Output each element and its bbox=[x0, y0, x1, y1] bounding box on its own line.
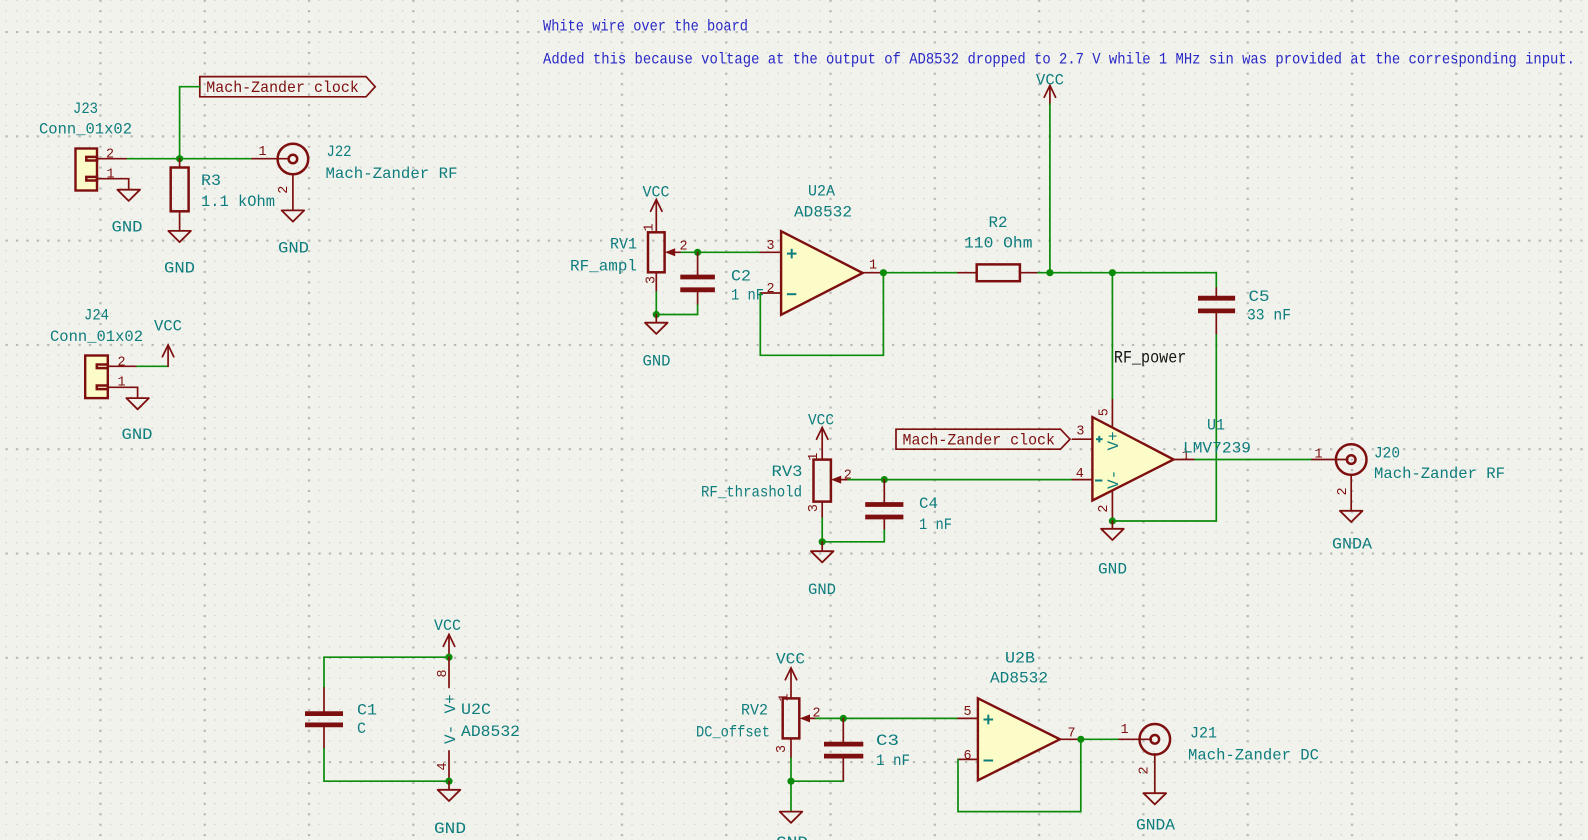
svg-text:Added this because voltage at: Added this because voltage at the output… bbox=[543, 51, 1575, 69]
J22 reference and value bbox=[326, 143, 458, 183]
svg-text:1.1 kOhm: 1.1 kOhm bbox=[201, 193, 275, 211]
power symbol VCC (top) bbox=[1036, 72, 1064, 105]
potentiometer RV3 bbox=[814, 460, 849, 518]
svg-text:110 Ohm: 110 Ohm bbox=[964, 235, 1033, 253]
wire U1 output to J20 bbox=[1195, 459, 1312, 461]
svg-text:1 nF: 1 nF bbox=[876, 752, 910, 770]
svg-text:C: C bbox=[357, 720, 366, 738]
U2C V+ / V- port names bbox=[442, 694, 460, 744]
J22 pin numbers bbox=[259, 145, 293, 194]
svg-text:3: 3 bbox=[645, 276, 660, 284]
J23 reference and value bbox=[39, 100, 132, 139]
svg-text:RF_ampl: RF_ampl bbox=[570, 258, 637, 276]
power symbol VCC at J24 bbox=[154, 318, 182, 367]
wire C1 bottom to U2C pin4 bbox=[324, 749, 449, 782]
svg-text:RV3: RV3 bbox=[772, 463, 803, 481]
junction at RV2 ground node bbox=[787, 778, 794, 785]
svg-text:DC_offset: DC_offset bbox=[696, 724, 770, 742]
coax connector J20 bbox=[1312, 444, 1366, 510]
wire U2B output to J21 bbox=[1081, 738, 1119, 740]
svg-text:C4: C4 bbox=[919, 495, 938, 513]
capacitor C1 bbox=[305, 688, 343, 749]
svg-text:GND: GND bbox=[434, 820, 466, 838]
power symbol VCC at RV3 bbox=[808, 412, 834, 460]
svg-text:GND: GND bbox=[776, 834, 808, 840]
svg-text:GNDA: GNDA bbox=[1332, 536, 1372, 554]
svg-text:1: 1 bbox=[1315, 448, 1323, 463]
op-amp U2A bbox=[760, 231, 883, 315]
coax connector J22 bbox=[252, 144, 308, 211]
power symbol VCC at RV2 bbox=[776, 651, 805, 699]
wire R2 to C5 top corner bbox=[1038, 273, 1216, 288]
svg-text:J22: J22 bbox=[327, 143, 352, 161]
svg-text:RV2: RV2 bbox=[741, 702, 768, 720]
svg-text:VCC: VCC bbox=[434, 617, 461, 635]
svg-text:3: 3 bbox=[767, 239, 775, 254]
junction at RV3 ground node bbox=[819, 538, 826, 545]
svg-text:6: 6 bbox=[964, 749, 972, 764]
wire RV1 pin3 / C2 bottom to GND node bbox=[656, 292, 697, 315]
RV3 pin numbers bbox=[807, 453, 852, 513]
svg-text:3: 3 bbox=[807, 504, 822, 512]
ground GNDA at J21 bbox=[1136, 793, 1175, 834]
svg-text:7: 7 bbox=[1068, 727, 1076, 742]
svg-text:Conn_01x02: Conn_01x02 bbox=[50, 328, 143, 346]
wire J24 pin2 to VCC bbox=[137, 365, 168, 367]
R3 labels bbox=[201, 172, 275, 211]
ground GNDA at J20 bbox=[1332, 511, 1372, 554]
svg-text:AD8532: AD8532 bbox=[990, 670, 1048, 688]
svg-text:GND: GND bbox=[164, 260, 195, 278]
svg-text:1 nF: 1 nF bbox=[731, 287, 764, 305]
svg-text:J24: J24 bbox=[84, 307, 109, 325]
ground at J22 pin 2 bbox=[278, 210, 309, 257]
svg-text:U2B: U2B bbox=[1005, 650, 1035, 668]
svg-text:1: 1 bbox=[777, 693, 792, 701]
C5 labels bbox=[1247, 288, 1291, 325]
svg-text:Mach-Zander DC: Mach-Zander DC bbox=[1188, 747, 1319, 765]
svg-text:RF_thrashold: RF_thrashold bbox=[701, 484, 802, 502]
wire J23 pin2 to J22 pin1 bbox=[126, 158, 252, 160]
svg-text:Conn_01x02: Conn_01x02 bbox=[39, 121, 132, 139]
capacitor C2 bbox=[680, 252, 715, 305]
U1 V+ / V- port names bbox=[1105, 431, 1123, 489]
svg-text:1: 1 bbox=[1121, 723, 1129, 738]
RV2 pin numbers bbox=[775, 693, 821, 753]
svg-text:V+: V+ bbox=[1105, 431, 1123, 450]
U1 reference and value bbox=[1183, 417, 1251, 458]
potentiometer RV2 bbox=[783, 698, 816, 758]
svg-text:2: 2 bbox=[1336, 487, 1351, 495]
svg-text:Mach-Zander clock: Mach-Zander clock bbox=[903, 431, 1056, 449]
RV1 pin numbers bbox=[643, 223, 688, 284]
J24 pin numbers bbox=[118, 356, 126, 391]
junction at RV1 ground node bbox=[653, 311, 660, 318]
C3 labels bbox=[876, 732, 910, 770]
wire label to J23/J22 net bbox=[180, 87, 200, 159]
svg-text:J21: J21 bbox=[1190, 725, 1217, 743]
svg-text:Mach-Zander RF: Mach-Zander RF bbox=[1374, 465, 1505, 483]
comparator U1 bbox=[1072, 400, 1195, 521]
junction at VCC drop bbox=[1046, 269, 1053, 276]
svg-text:2: 2 bbox=[844, 469, 852, 484]
junction at U2A output bbox=[880, 269, 887, 276]
svg-text:C2: C2 bbox=[731, 268, 751, 286]
svg-text:V-: V- bbox=[442, 725, 460, 744]
svg-text:2: 2 bbox=[1138, 766, 1153, 774]
svg-text:1: 1 bbox=[643, 223, 658, 231]
svg-text:Mach-Zander RF: Mach-Zander RF bbox=[326, 165, 458, 183]
resistor R3 bbox=[171, 159, 189, 231]
svg-text:White wire over the board: White wire over the board bbox=[543, 18, 748, 36]
wire RV3 pin3 / C4 bottom to GND node bbox=[822, 518, 884, 542]
C4 labels bbox=[919, 495, 952, 534]
svg-text:VCC: VCC bbox=[643, 184, 670, 202]
junction at R3 top node bbox=[176, 155, 183, 162]
svg-text:2: 2 bbox=[277, 186, 292, 194]
svg-text:U2A: U2A bbox=[808, 183, 835, 201]
ground at J24 pin 1 bbox=[122, 398, 153, 444]
capacitor C5 bbox=[1198, 288, 1235, 335]
global label Mach-Zander clock (top) bbox=[200, 77, 375, 97]
svg-text:4: 4 bbox=[1076, 467, 1084, 482]
capacitor C3 bbox=[824, 718, 863, 781]
op-amp power unit U2C bbox=[448, 657, 450, 781]
svg-text:AD8532: AD8532 bbox=[794, 204, 852, 222]
connector J23 bbox=[76, 149, 129, 191]
ground at RV3 bbox=[808, 542, 836, 599]
svg-text:GND: GND bbox=[278, 240, 309, 258]
svg-text:2: 2 bbox=[767, 282, 775, 297]
wire VCC down to R2 output node bbox=[1049, 104, 1051, 273]
svg-text:R2: R2 bbox=[989, 214, 1008, 232]
J21 reference and value bbox=[1188, 725, 1319, 765]
svg-text:1: 1 bbox=[118, 376, 126, 391]
U2B pin numbers bbox=[964, 705, 1076, 764]
R2 labels bbox=[964, 214, 1033, 253]
RV3 reference and value bbox=[701, 463, 803, 502]
J20 reference and value bbox=[1374, 445, 1505, 484]
U2A pin numbers bbox=[767, 239, 878, 297]
svg-text:RF_power: RF_power bbox=[1114, 348, 1186, 368]
junction at U2C pin4 bbox=[445, 778, 452, 785]
svg-text:GND: GND bbox=[1098, 561, 1127, 579]
svg-text:J20: J20 bbox=[1374, 445, 1400, 463]
svg-text:2: 2 bbox=[106, 148, 114, 163]
resistor R2 bbox=[958, 264, 1038, 281]
svg-text:1 nF: 1 nF bbox=[919, 516, 952, 534]
coax connector J21 bbox=[1119, 724, 1170, 793]
svg-text:VCC: VCC bbox=[808, 412, 834, 430]
wire U2A output to R2 bbox=[883, 272, 958, 274]
svg-text:R3: R3 bbox=[201, 172, 221, 190]
wire junction down to GND bbox=[790, 781, 792, 811]
svg-text:1: 1 bbox=[869, 259, 877, 274]
svg-text:U2C: U2C bbox=[461, 701, 491, 719]
U2B feedback wire output to pin6 bbox=[958, 739, 1081, 811]
J21 pin numbers bbox=[1121, 723, 1153, 775]
RV2 reference and value bbox=[696, 702, 770, 742]
svg-text:3: 3 bbox=[1076, 425, 1084, 440]
potentiometer RV1 bbox=[648, 232, 681, 292]
svg-text:LMV7239: LMV7239 bbox=[1183, 440, 1251, 458]
U2A reference and value bbox=[794, 183, 852, 222]
U2C pin numbers bbox=[436, 669, 451, 770]
J23 pin numbers bbox=[106, 148, 115, 183]
svg-text:GND: GND bbox=[112, 219, 143, 237]
U2A feedback wire output to pin2 bbox=[760, 273, 883, 356]
svg-text:C3: C3 bbox=[876, 732, 899, 750]
svg-text:1: 1 bbox=[107, 168, 115, 183]
ground at R3 bottom bbox=[164, 231, 195, 278]
svg-text:GNDA: GNDA bbox=[1136, 817, 1175, 835]
svg-text:2: 2 bbox=[118, 356, 126, 371]
J20 pin numbers bbox=[1315, 448, 1352, 496]
ground at U2C bbox=[434, 781, 466, 838]
wire node down to U1 pin 5 bbox=[1111, 273, 1113, 400]
RV1 reference and value bbox=[570, 236, 637, 276]
U2B reference and value bbox=[990, 650, 1048, 688]
op-amp U2B bbox=[958, 698, 1081, 780]
svg-text:1: 1 bbox=[259, 145, 267, 160]
svg-text:C1: C1 bbox=[357, 702, 377, 720]
junction at U1 pin5 drop bbox=[1109, 269, 1116, 276]
junction at C3 top bbox=[840, 715, 847, 722]
ground at J23 pin 1 bbox=[112, 190, 143, 237]
junction at C4 top bbox=[881, 476, 888, 483]
svg-text:VCC: VCC bbox=[154, 318, 182, 336]
svg-text:8: 8 bbox=[436, 669, 451, 677]
svg-text:AD8532: AD8532 bbox=[461, 723, 520, 741]
global label Mach-Zander clock (at U1) bbox=[896, 429, 1070, 449]
svg-text:GND: GND bbox=[643, 353, 671, 371]
J24 reference and value bbox=[50, 307, 143, 347]
wire C5 bottom to U1 ground node bbox=[1112, 335, 1216, 521]
junction at U2C pin8 bbox=[445, 654, 452, 661]
svg-text:J23: J23 bbox=[73, 100, 98, 118]
junction at U1 pin2 ground node bbox=[1109, 517, 1116, 524]
svg-text:GND: GND bbox=[808, 581, 836, 599]
svg-text:U1: U1 bbox=[1207, 417, 1225, 435]
svg-text:5: 5 bbox=[1098, 408, 1113, 416]
wire VCC node to C1 top bbox=[324, 657, 449, 688]
power symbol VCC at U2C bbox=[434, 617, 461, 657]
U1 pin numbers bbox=[1076, 408, 1190, 512]
C1 labels bbox=[357, 702, 377, 739]
connector J24 bbox=[85, 356, 137, 399]
svg-text:5: 5 bbox=[964, 705, 972, 720]
svg-text:C5: C5 bbox=[1249, 288, 1270, 306]
svg-text:3: 3 bbox=[775, 745, 790, 753]
svg-text:V+: V+ bbox=[442, 694, 460, 713]
svg-text:4: 4 bbox=[436, 762, 451, 770]
capacitor C4 bbox=[865, 480, 903, 530]
svg-text:VCC: VCC bbox=[1036, 72, 1064, 90]
svg-text:GND: GND bbox=[122, 426, 153, 444]
svg-text:33 nF: 33 nF bbox=[1247, 307, 1291, 325]
junction at C2 top bbox=[694, 249, 701, 256]
svg-text:VCC: VCC bbox=[776, 651, 805, 669]
ground at RV1 bbox=[643, 315, 671, 371]
wire RV2 wiper to U2B pin5 bbox=[816, 717, 958, 719]
U2C reference and value bbox=[461, 701, 520, 741]
C2 labels bbox=[731, 268, 764, 305]
wire RV2 pin3 / C3 bottom to GND node bbox=[791, 758, 843, 781]
svg-text:V-: V- bbox=[1105, 470, 1123, 489]
ground at U1 pin2 bbox=[1098, 521, 1127, 579]
svg-text:2: 2 bbox=[1097, 505, 1112, 513]
ground at RV2 bbox=[776, 812, 808, 840]
svg-text:1: 1 bbox=[807, 453, 822, 461]
power symbol VCC at RV1 bbox=[643, 184, 670, 233]
svg-text:Mach-Zander clock: Mach-Zander clock bbox=[206, 79, 358, 97]
wire RV1 wiper to U2A pin3 bbox=[681, 251, 760, 253]
svg-text:RV1: RV1 bbox=[610, 236, 637, 254]
junction at U2B output bbox=[1077, 736, 1084, 743]
wire RV3 wiper to U1 pin4 bbox=[848, 479, 1072, 481]
